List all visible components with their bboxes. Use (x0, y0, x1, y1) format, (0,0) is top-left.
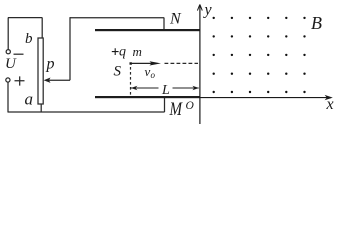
field dots row 3 (213, 54, 306, 56)
dashed horizontal trajectory line (165, 62, 199, 64)
charge dot (130, 62, 132, 64)
svg-text:B: B (311, 13, 322, 33)
field dots row 1 (213, 17, 306, 19)
dashed vertical line below charge (130, 67, 132, 95)
y axis arrowhead (197, 4, 202, 10)
svg-text:M: M (169, 99, 183, 120)
wire rheostat bottom lead (40, 104, 42, 112)
svg-text:L: L (161, 83, 170, 98)
svg-text:b: b (25, 31, 33, 47)
field dots row 5 (213, 91, 306, 93)
plus label of U (15, 76, 25, 85)
field dots row 4 (213, 73, 306, 75)
wire slider horizontal (49, 79, 71, 81)
L dimension right arrow (173, 86, 199, 91)
svg-text:U: U (5, 56, 17, 72)
svg-text:y: y (203, 2, 213, 19)
wire battery left vertical upper (7, 18, 9, 50)
wire plate M lead (164, 98, 166, 112)
svg-text:p: p (46, 56, 55, 73)
svg-text:q: q (119, 45, 126, 60)
svg-text:O: O (186, 100, 195, 112)
plate N (95, 29, 200, 31)
minus label of U (14, 53, 24, 55)
wire battery left vertical lower (7, 82, 9, 112)
wire middle vertical (69, 17, 71, 80)
svg-text:m: m (133, 44, 142, 59)
svg-text:x: x (326, 96, 334, 113)
v0 arrowhead (150, 61, 162, 65)
x axis (200, 97, 331, 99)
svg-text:o: o (151, 70, 156, 80)
plate M (95, 96, 200, 98)
wire middle top horizontal (70, 17, 164, 19)
rheostat R body (38, 38, 43, 104)
wire battery top horizontal (8, 17, 42, 19)
terminal circle positive (6, 78, 10, 82)
svg-text:N: N (169, 11, 182, 28)
L dimension left arrow (131, 86, 159, 91)
svg-text:S: S (114, 64, 122, 80)
y axis (199, 5, 201, 124)
slider arrowhead p (44, 78, 51, 83)
label +q (112, 48, 119, 55)
terminal circle negative (6, 50, 10, 54)
v0 arrow shaft (131, 62, 153, 64)
wire rheostat top lead (41, 18, 43, 39)
wire plate N lead (163, 18, 165, 30)
wire bottom horizontal (8, 111, 165, 113)
x axis arrowhead (325, 95, 333, 100)
svg-text:a: a (25, 90, 34, 109)
field dots row 2 (213, 35, 306, 37)
